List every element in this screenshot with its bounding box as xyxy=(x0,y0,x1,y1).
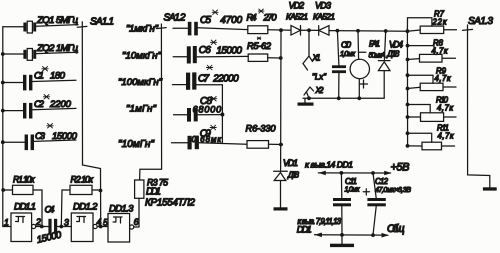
svg-text:C1: C1 xyxy=(34,71,44,82)
svg-text:X2: X2 xyxy=(315,86,325,95)
svg-text:КА521: КА521 xyxy=(286,12,308,22)
switch SA1.1 : wiper tick, common bus down to DD1.2 output xyxy=(77,17,114,227)
svg-text:180: 180 xyxy=(50,71,66,82)
svg-text:68000: 68000 xyxy=(193,104,222,114)
svg-text:2200: 2200 xyxy=(49,99,72,110)
wire: top rail with junction dots (diode/meter section) xyxy=(281,28,409,33)
svg-text:4,7к: 4,7к xyxy=(437,103,453,112)
svg-text:22000: 22000 xyxy=(212,74,239,85)
svg-text:SA1.3: SA1.3 xyxy=(468,16,493,27)
svg-text:"1мкГн": "1мкГн" xyxy=(126,24,159,35)
svg-text:C6: C6 xyxy=(199,45,211,56)
svg-text:VD3: VD3 xyxy=(315,1,331,11)
svg-text:5: 5 xyxy=(103,218,108,228)
svg-text:DD1: DD1 xyxy=(297,225,312,235)
svg-text:6: 6 xyxy=(134,217,139,227)
svg-text:"100мкГн": "100мкГн" xyxy=(118,77,163,88)
switch SA1.2 : wiper tick, bus down to R3 xyxy=(140,13,186,181)
svg-text:R6-330: R6-330 xyxy=(246,124,277,134)
svg-text:R4: R4 xyxy=(247,13,257,23)
jack X1 with "Lx" label xyxy=(303,30,327,81)
crystal ZQ2 1МГц xyxy=(3,43,79,60)
svg-text:C4: C4 xyxy=(45,205,55,216)
svg-text:"1мГн": "1мГн" xyxy=(126,104,157,115)
wire: resistor-network left bus with jogs and junction dots xyxy=(406,18,434,148)
svg-text:SA1.1: SA1.1 xyxy=(90,17,114,28)
resistor R10 4,7к xyxy=(408,96,457,122)
resistor R2 10к xyxy=(61,175,102,227)
diode VD1 Д18 with ground xyxy=(274,158,300,211)
svg-text:270: 270 xyxy=(263,13,278,23)
svg-text:1,0мк: 1,0мк xyxy=(340,49,356,58)
svg-text:Д18: Д18 xyxy=(386,50,400,59)
svg-text:0,68мк: 0,68мк xyxy=(192,135,222,144)
svg-text:ZQ1 5МГц: ZQ1 5МГц xyxy=(36,15,79,26)
capacitor C4 15000 xyxy=(36,205,72,246)
svg-text:15000: 15000 xyxy=(216,46,242,57)
capacitor C7 22000 with stub and vertical to C8 row xyxy=(172,65,239,114)
svg-text:VD2: VD2 xyxy=(289,1,305,11)
meter PA1 50мкА xyxy=(350,31,385,99)
svg-text:"10мГн": "10мГн" xyxy=(118,139,154,150)
resistor R4 270 xyxy=(247,9,282,40)
svg-text:C12: C12 xyxy=(375,177,389,186)
resistor R1 10к xyxy=(3,175,42,227)
svg-text:50мкА: 50мкА xyxy=(369,51,386,60)
svg-text:R1 10к: R1 10к xyxy=(13,175,35,185)
svg-text:DD1.1: DD1.1 xyxy=(14,202,36,213)
svg-text:"10мкГн": "10мкГн" xyxy=(122,51,162,62)
capacitor C3 15000 xyxy=(3,124,78,151)
resistor R8 4,7к xyxy=(408,39,456,63)
svg-text:DD1: DD1 xyxy=(146,187,161,198)
capacitor C10 1,0мк xyxy=(332,31,356,99)
capacitor C11 1,0мк xyxy=(333,173,360,235)
svg-text:C5: C5 xyxy=(200,15,211,26)
gate DD1.3 (pins 5,6) xyxy=(103,204,139,243)
svg-text:4700: 4700 xyxy=(220,15,242,26)
label DD1 КР1554ТЛ2 (chip type) xyxy=(145,187,196,209)
svg-text:SA1.2: SA1.2 xyxy=(164,13,186,24)
svg-text:к выв.14 DD1: к выв.14 DD1 xyxy=(305,160,353,170)
capacitor C1 180 xyxy=(3,67,76,91)
svg-text:КА521: КА521 xyxy=(313,12,335,22)
+5V rail with arrows, label "к выв.14 DD1" and +5В xyxy=(305,160,410,176)
svg-text:R2 10к: R2 10к xyxy=(71,175,94,185)
resistor R9 4,7к xyxy=(408,66,457,90)
svg-text:+5В: +5В xyxy=(391,162,410,174)
jack X2 with ground xyxy=(298,86,325,106)
svg-text:X1: X1 xyxy=(312,54,321,63)
capacitor C9 0,68мк with stub xyxy=(172,125,248,149)
svg-text:1: 1 xyxy=(4,218,9,228)
svg-text:ZQ2 1МГц: ZQ2 1МГц xyxy=(36,43,79,54)
svg-text:4,7к: 4,7к xyxy=(438,132,454,141)
svg-text:VD1: VD1 xyxy=(283,158,298,168)
svg-text:4,7к: 4,7к xyxy=(432,46,448,55)
crystal ZQ1 5МГц xyxy=(3,15,79,33)
svg-text:15000: 15000 xyxy=(52,131,78,142)
svg-text:DD1.3: DD1.3 xyxy=(109,204,134,215)
diode VD4 Д18 xyxy=(378,31,403,98)
capacitor C8 68000 with stub xyxy=(174,96,225,143)
resistor R7 22к xyxy=(407,10,456,34)
gate DD1.1 (pins 1,2) xyxy=(3,202,49,242)
svg-text:Общ: Общ xyxy=(387,223,405,235)
svg-text:15000: 15000 xyxy=(36,229,63,245)
svg-text:Д18: Д18 xyxy=(287,171,300,180)
capacitor C12 47,0мк (electrolytic, + mark) xyxy=(363,173,411,235)
svg-text:2: 2 xyxy=(35,217,41,227)
capacitor C5 4700 with SA1.2 contact stub xyxy=(173,10,248,35)
gate DD1.2 (pins 3,4) xyxy=(64,202,108,242)
svg-text:R5-62: R5-62 xyxy=(247,41,272,51)
svg-text:4,7к: 4,7к xyxy=(435,74,451,83)
Общ rail with arrows, labels "к выв.7,9,11,13 DD1" and Общ, ground xyxy=(297,217,405,247)
svg-text:"Lх": "Lх" xyxy=(312,73,327,82)
resistor R5 62 xyxy=(247,41,280,62)
svg-text:DD1.2: DD1.2 xyxy=(73,202,98,213)
svg-text:PA1: PA1 xyxy=(369,40,380,49)
resistor R11 4,7к xyxy=(408,124,455,150)
resistor R6 330 xyxy=(246,124,283,149)
svg-text:VD4: VD4 xyxy=(389,40,403,50)
svg-text:22к: 22к xyxy=(432,18,447,27)
capacitor C2 2200 xyxy=(3,95,76,119)
diode VD3 КА521 xyxy=(313,1,335,36)
wire: left vertical bus with junction dots xyxy=(1,27,5,227)
svg-text:47,0мк×6,3В: 47,0мк×6,3В xyxy=(375,186,411,194)
svg-text:C3: C3 xyxy=(35,131,46,142)
capacitor C6 15000 with SA1.2 contact stub xyxy=(173,40,248,64)
svg-text:C2: C2 xyxy=(34,99,45,110)
wire: right-middle bus x=281 with junction dots xyxy=(279,28,283,170)
svg-text:1,0мк: 1,0мк xyxy=(345,186,361,194)
svg-text:КР1554ТЛ2: КР1554ТЛ2 xyxy=(145,198,196,209)
resistor R3 75 (vertical) xyxy=(135,178,168,228)
diode VD2 КА521 xyxy=(286,1,308,36)
svg-text:C7: C7 xyxy=(198,74,209,85)
svg-text:С10: С10 xyxy=(341,40,351,50)
wire: bottom rail of meter section with junction dots xyxy=(303,96,384,100)
switch SA1.3 : wiper tick, bus down to ground xyxy=(463,16,497,191)
svg-text:3: 3 xyxy=(64,218,69,228)
